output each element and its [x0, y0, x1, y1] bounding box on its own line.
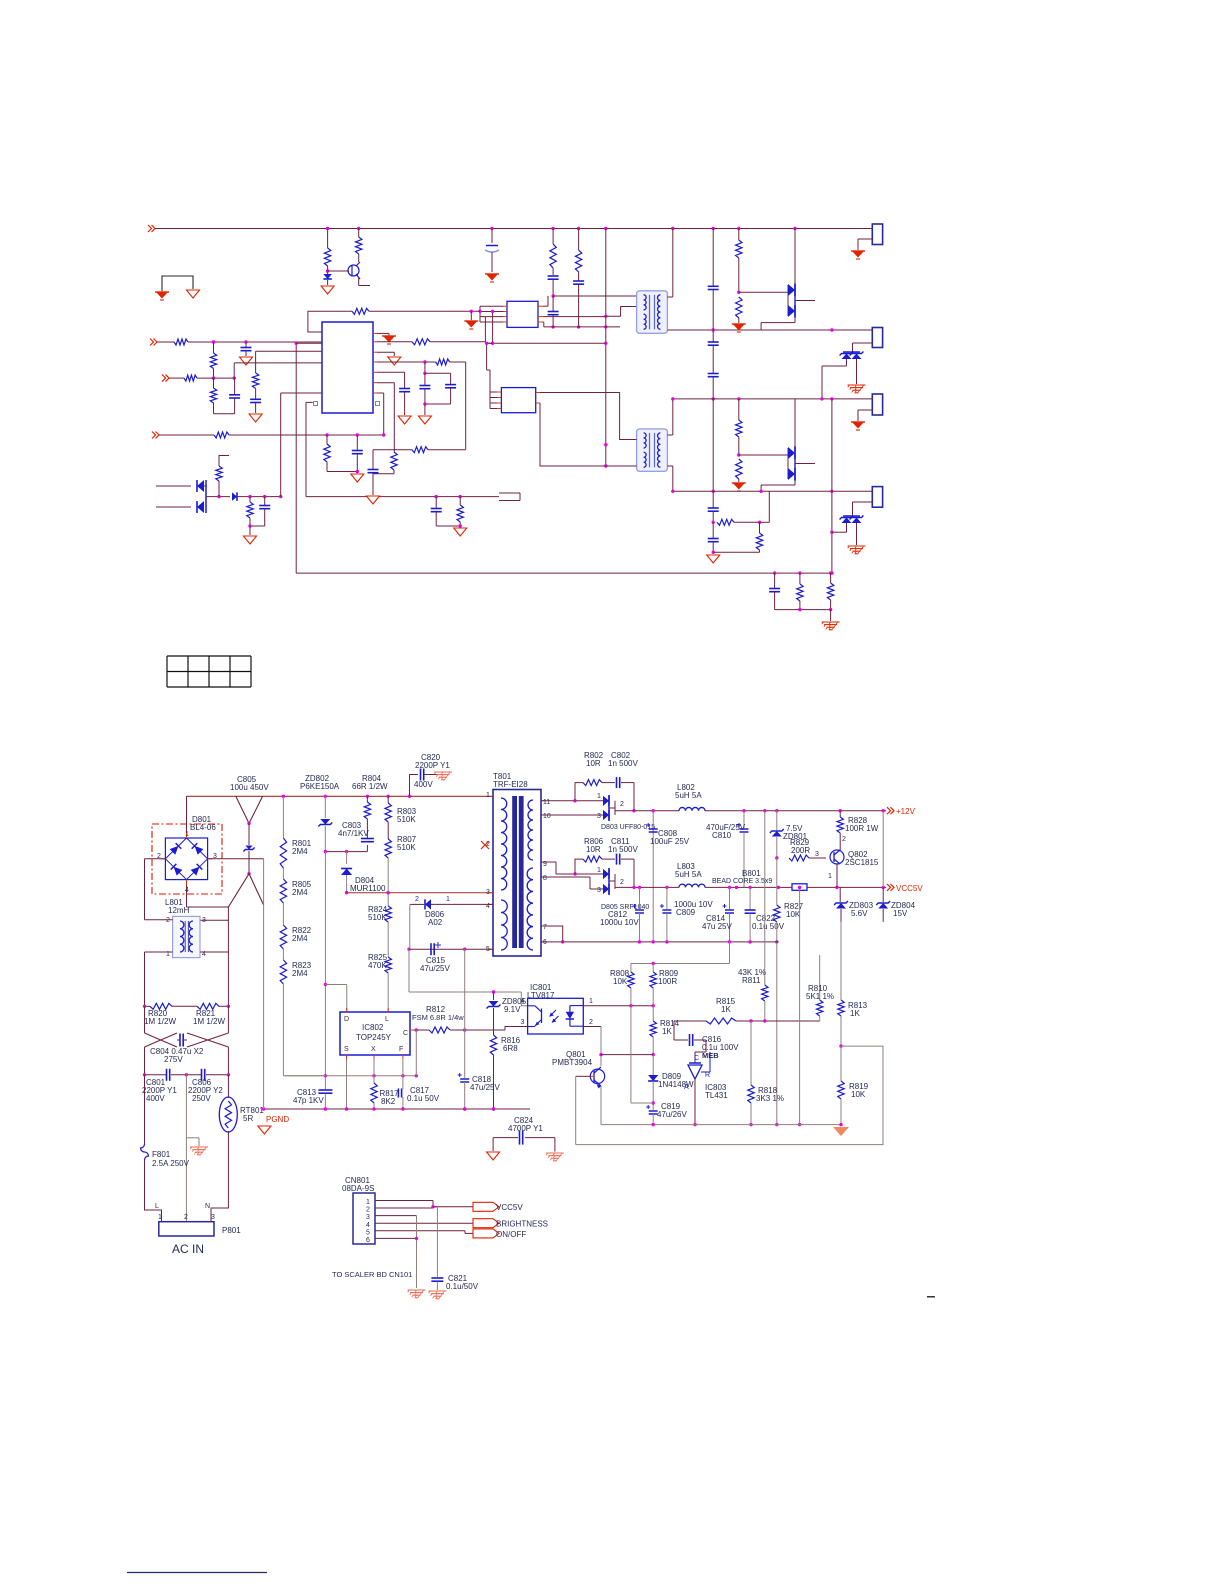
svg-text:2M4: 2M4: [292, 847, 308, 856]
svg-text:P6KE150A: P6KE150A: [300, 782, 340, 791]
svg-text:2M4: 2M4: [292, 969, 308, 978]
svg-text:1: 1: [158, 1214, 162, 1221]
svg-text:2: 2: [166, 917, 170, 924]
svg-text:1n 500V: 1n 500V: [608, 759, 638, 768]
svg-text:2: 2: [184, 1214, 188, 1221]
svg-text:2: 2: [842, 836, 846, 843]
svg-text:BEAD CORE 3.5x9: BEAD CORE 3.5x9: [712, 878, 772, 885]
svg-text:TRF-EI28: TRF-EI28: [493, 780, 528, 789]
svg-text:47u/25V: 47u/25V: [470, 1083, 500, 1092]
svg-text:0.1u/50V: 0.1u/50V: [446, 1282, 479, 1291]
svg-text:8K2: 8K2: [381, 1097, 396, 1106]
svg-text:1K: 1K: [721, 1005, 731, 1014]
svg-text:47p 1KV: 47p 1KV: [293, 1096, 324, 1105]
svg-text:275V: 275V: [164, 1055, 183, 1064]
svg-text:11: 11: [543, 799, 550, 806]
svg-text:47u/26V: 47u/26V: [657, 1110, 687, 1119]
svg-text:5uH 5A: 5uH 5A: [675, 791, 702, 800]
svg-text:3: 3: [815, 851, 819, 858]
svg-text:5R: 5R: [243, 1114, 253, 1123]
svg-text:TO SCALER BD CN101: TO SCALER BD CN101: [332, 1270, 412, 1279]
svg-text:9.1V: 9.1V: [504, 1005, 521, 1014]
svg-text:100uF 25V: 100uF 25V: [650, 837, 690, 846]
svg-text:4700P Y1: 4700P Y1: [508, 1124, 543, 1133]
svg-text:66R 1/2W: 66R 1/2W: [352, 782, 388, 791]
svg-text:0.1u 50V: 0.1u 50V: [407, 1094, 440, 1103]
svg-text:L: L: [155, 1203, 159, 1210]
svg-text:2M4: 2M4: [292, 934, 308, 943]
svg-text:PMBT3904: PMBT3904: [552, 1058, 593, 1067]
svg-text:2.5A 250V: 2.5A 250V: [152, 1159, 190, 1168]
svg-text:TL431: TL431: [705, 1091, 728, 1100]
svg-text:5K1 1%: 5K1 1%: [806, 992, 834, 1001]
svg-text:1M 1/2W: 1M 1/2W: [193, 1017, 225, 1026]
svg-text:12mH: 12mH: [168, 906, 190, 915]
svg-text:100R 1W: 100R 1W: [845, 824, 879, 833]
svg-text:D: D: [344, 1016, 349, 1023]
svg-text:100R: 100R: [658, 977, 677, 986]
svg-text:47u/25V: 47u/25V: [420, 964, 450, 973]
svg-text:200R: 200R: [791, 846, 810, 855]
svg-text:10R: 10R: [586, 845, 601, 854]
svg-text:2SC1815: 2SC1815: [845, 858, 879, 867]
svg-text:250V: 250V: [192, 1094, 211, 1103]
svg-text:ON/OFF: ON/OFF: [496, 1230, 526, 1239]
svg-text:5.6V: 5.6V: [851, 909, 868, 918]
svg-text:+12V: +12V: [896, 807, 916, 816]
svg-text:510K: 510K: [368, 913, 387, 922]
svg-text:10R: 10R: [586, 759, 601, 768]
svg-text:400V: 400V: [414, 780, 433, 789]
svg-text:P801: P801: [222, 1226, 241, 1235]
svg-text:3: 3: [521, 1019, 525, 1026]
svg-text:10K: 10K: [851, 1090, 866, 1099]
svg-text:1K: 1K: [662, 1027, 672, 1036]
svg-text:BL4-06: BL4-06: [190, 823, 216, 832]
svg-text:400V: 400V: [146, 1094, 165, 1103]
svg-text:10K: 10K: [613, 977, 628, 986]
svg-text:0.1u 50V: 0.1u 50V: [752, 922, 785, 931]
svg-text:1: 1: [589, 998, 593, 1005]
svg-text:5uH 5A: 5uH 5A: [675, 870, 702, 879]
svg-text:7: 7: [543, 924, 547, 931]
svg-text:6: 6: [366, 1237, 370, 1244]
svg-text:VCC5V: VCC5V: [896, 884, 923, 893]
svg-text:3: 3: [211, 1214, 215, 1221]
svg-text:X: X: [371, 1046, 376, 1053]
svg-text:S: S: [344, 1046, 349, 1053]
svg-text:A02: A02: [428, 918, 443, 927]
svg-text:2: 2: [366, 1207, 370, 1214]
svg-text:PGND: PGND: [266, 1115, 289, 1124]
svg-text:510K: 510K: [397, 843, 416, 852]
svg-text:4: 4: [521, 998, 525, 1005]
svg-text:4n7/1KV: 4n7/1KV: [338, 829, 369, 838]
svg-text:15V: 15V: [893, 909, 908, 918]
svg-text:BRIGHTNESS: BRIGHTNESS: [496, 1220, 548, 1229]
svg-text:510K: 510K: [397, 815, 416, 824]
svg-text:AC IN: AC IN: [172, 1242, 204, 1256]
svg-text:C810: C810: [712, 831, 732, 840]
svg-text:470K: 470K: [368, 961, 387, 970]
svg-text:VCC5V: VCC5V: [496, 1203, 523, 1212]
svg-text:L: L: [385, 1016, 389, 1023]
svg-text:47u 25V: 47u 25V: [702, 922, 732, 931]
svg-text:N: N: [205, 1203, 210, 1210]
svg-text:6R8: 6R8: [503, 1044, 518, 1053]
svg-text:F: F: [399, 1046, 403, 1053]
svg-text:1: 1: [446, 896, 450, 903]
svg-text:C809: C809: [676, 908, 696, 917]
svg-text:6: 6: [543, 939, 547, 946]
svg-text:2: 2: [415, 896, 419, 903]
svg-text:1: 1: [486, 792, 490, 799]
svg-text:8: 8: [543, 875, 547, 882]
svg-text:R811: R811: [742, 976, 761, 985]
svg-text:100u 450V: 100u 450V: [230, 783, 269, 792]
svg-text:1M 1/2W: 1M 1/2W: [144, 1017, 176, 1026]
svg-text:1K: 1K: [850, 1009, 860, 1018]
svg-text:2: 2: [620, 879, 624, 886]
svg-text:3K3 1%: 3K3 1%: [756, 1094, 784, 1103]
svg-text:3: 3: [202, 917, 206, 924]
svg-text:5: 5: [366, 1229, 370, 1236]
svg-text:C: C: [694, 1055, 699, 1062]
svg-text:2: 2: [589, 1019, 593, 1026]
svg-text:3: 3: [597, 887, 601, 894]
svg-text:3: 3: [597, 813, 601, 820]
svg-text:1: 1: [828, 873, 832, 880]
svg-text:1n 500V: 1n 500V: [608, 845, 638, 854]
svg-text:B801: B801: [742, 869, 761, 878]
svg-text:FSM 6.8R 1/4w: FSM 6.8R 1/4w: [412, 1013, 464, 1022]
svg-text:R: R: [705, 1072, 710, 1079]
svg-text:IC802: IC802: [362, 1023, 384, 1032]
svg-text:1: 1: [597, 867, 601, 874]
svg-text:08DA-9S: 08DA-9S: [342, 1184, 374, 1193]
svg-text:1: 1: [366, 1199, 370, 1206]
svg-text:1: 1: [597, 793, 601, 800]
svg-text:4: 4: [366, 1222, 370, 1229]
svg-text:10: 10: [543, 813, 551, 820]
svg-text:MUR1100: MUR1100: [350, 884, 386, 893]
svg-text:10K: 10K: [786, 910, 801, 919]
svg-text:2M4: 2M4: [292, 888, 308, 897]
svg-text:F801: F801: [152, 1150, 171, 1159]
svg-text:A: A: [684, 1084, 689, 1091]
svg-text:2: 2: [620, 801, 624, 808]
svg-text:1000u 10V: 1000u 10V: [600, 918, 639, 927]
svg-text:C: C: [403, 1030, 408, 1037]
svg-text:TOP245Y: TOP245Y: [356, 1033, 392, 1042]
svg-text:3: 3: [366, 1214, 370, 1221]
